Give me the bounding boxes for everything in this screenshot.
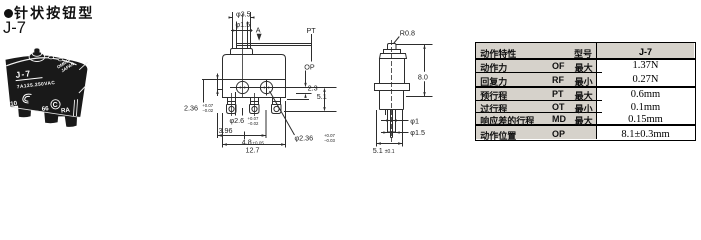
svg-text:8.0: 8.0 <box>418 72 428 81</box>
svg-text:−0.03: −0.03 <box>324 138 335 143</box>
front view dimension texts <box>184 9 335 154</box>
terminal 3 <box>272 98 282 114</box>
12.7 dim <box>223 101 286 148</box>
cap trapezoid <box>380 54 407 59</box>
vertical divider <box>596 43 598 139</box>
svg-text:φ2.6: φ2.6 <box>230 116 245 125</box>
svg-text:OP: OP <box>304 62 315 71</box>
svg-text:φ1: φ1 <box>410 116 419 125</box>
FP datum double lines <box>236 44 312 46</box>
case line A <box>202 79 286 81</box>
phi1.5 dim line <box>231 30 253 32</box>
product illustration: black micro switch photo-style drawing <box>0 0 460 186</box>
5.1 arrows <box>323 88 325 112</box>
plunger pin dome <box>34 48 40 53</box>
section title 针状按钮型 <box>4 3 95 23</box>
left dim arrows <box>216 75 218 94</box>
phi1 arrows <box>386 119 396 121</box>
bottom dim line 3.96 / 4.8 <box>218 132 267 140</box>
characteristics table <box>475 42 696 141</box>
svg-text:φ1.5: φ1.5 <box>236 20 251 29</box>
left label leader <box>203 80 205 103</box>
hole centerline extended <box>230 87 337 89</box>
label J-7 <box>14 66 55 91</box>
bottom edge seam <box>11 107 80 117</box>
left 2.36 dim line <box>217 74 219 97</box>
R0.8 leader <box>394 37 400 44</box>
svg-text:2.36: 2.36 <box>184 104 198 113</box>
row RF <box>480 75 507 88</box>
phi1 dim line <box>381 120 409 122</box>
phi3.5 dim line <box>229 17 255 19</box>
plunger flange <box>231 49 253 55</box>
header value cell gray <box>596 43 694 58</box>
phi2.36 leader <box>270 91 295 135</box>
phi1.5 arrows <box>232 29 252 31</box>
svg-text:RA: RA <box>61 107 71 115</box>
upper body <box>380 59 405 84</box>
row OF <box>480 61 507 74</box>
terminal center extension lines <box>232 93 255 116</box>
switch body outline <box>223 55 286 98</box>
row MD <box>480 114 534 127</box>
row OP <box>480 129 516 142</box>
svg-text:±0.1: ±0.1 <box>385 149 395 155</box>
svg-text:12.7: 12.7 <box>246 145 260 154</box>
plunger pin base ellipse <box>29 52 45 61</box>
plunger phi1.5 extension lines <box>237 22 248 49</box>
phi1.5 dim line <box>381 132 409 134</box>
phi2.6 extension ticks <box>236 92 243 116</box>
svg-text:A: A <box>256 25 261 34</box>
certification marks row <box>10 94 71 114</box>
phi3.5 arrows <box>229 16 255 18</box>
8.0 arrows <box>423 45 425 97</box>
svg-text:φ3.5: φ3.5 <box>236 9 251 18</box>
phi1.5 arrows <box>383 131 399 133</box>
svg-text:φ1.5: φ1.5 <box>410 128 425 137</box>
label column gray background <box>476 43 596 139</box>
plunger phi3.5 extension lines <box>233 12 251 49</box>
8.0 dim <box>396 45 433 97</box>
2.3 arrow up <box>304 94 306 98</box>
right end seams <box>79 62 87 70</box>
mounting hole right <box>260 81 272 93</box>
5.1 dim vertical <box>324 91 326 108</box>
switch body silhouette <box>6 56 88 127</box>
model label J-7 <box>3 19 26 38</box>
row OT <box>480 102 507 115</box>
pin <box>388 44 397 50</box>
OP arrow down <box>304 83 306 88</box>
body bottom right stub <box>287 99 309 101</box>
OP vertical with arrow <box>305 71 307 84</box>
front view arrowheads <box>216 16 325 145</box>
svg-text:5.1: 5.1 <box>373 146 383 155</box>
svg-text:3.96: 3.96 <box>219 126 233 135</box>
OMRON JAPAN top face text <box>56 56 76 74</box>
plunger pin mid collar <box>32 51 41 56</box>
top stud <box>49 56 54 59</box>
svg-text:−0.02: −0.02 <box>248 121 259 126</box>
terminal 1 <box>227 98 237 114</box>
top face front seam <box>6 58 76 66</box>
3.96/4.8 dim arrows <box>218 134 267 136</box>
svg-text:5.1: 5.1 <box>317 92 327 101</box>
svg-text:J-7: J-7 <box>15 68 32 80</box>
row lines <box>476 58 695 59</box>
svg-text:−0.02: −0.02 <box>202 108 213 113</box>
5.1 arrows <box>377 142 403 144</box>
PT vertical <box>311 34 313 62</box>
svg-text:φ2.36: φ2.36 <box>295 133 314 142</box>
5.1 ext + dim <box>377 110 403 147</box>
terminal 2 <box>250 98 260 114</box>
svg-text:PT: PT <box>307 26 317 35</box>
right 2.3 stub <box>296 93 312 95</box>
terminal pin <box>388 110 396 133</box>
center dash line <box>391 40 393 142</box>
terminal bottom extension line <box>284 111 337 113</box>
lower body <box>380 91 404 110</box>
A arrow <box>257 34 262 41</box>
header row <box>480 47 516 60</box>
svg-text:C: C <box>53 102 58 109</box>
12.7 arrows <box>223 143 286 145</box>
svg-text:R0.8: R0.8 <box>400 28 415 37</box>
hole center marks <box>238 87 272 89</box>
row PT <box>480 89 507 102</box>
mounting hole left <box>236 81 248 93</box>
plunger centerline <box>242 14 244 97</box>
line B stub <box>217 89 223 91</box>
collar <box>375 84 410 91</box>
pin tier 2 <box>384 50 401 54</box>
